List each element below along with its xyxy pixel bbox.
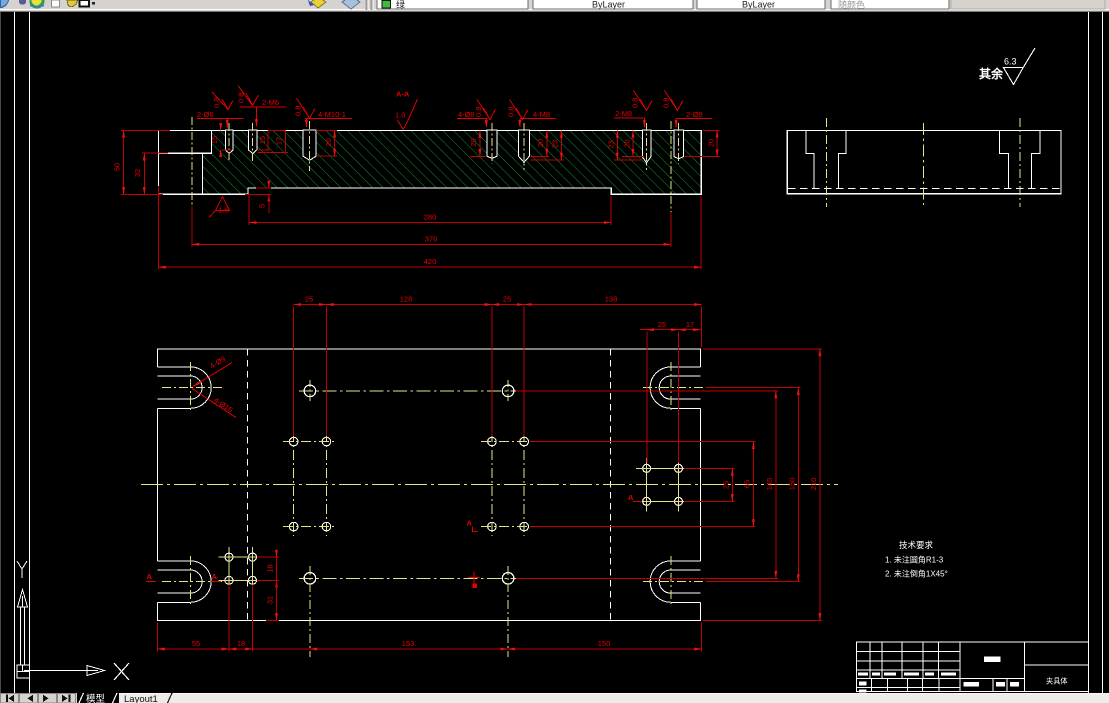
svg-text:0.8: 0.8 bbox=[474, 107, 483, 117]
top toolbar strip bbox=[0, 0, 1109, 12]
bolt hole H6 (2-M8) bbox=[642, 130, 651, 163]
big holes Ø9 row1/row4 bbox=[304, 385, 514, 584]
svg-text:2. 未注倒角1X45°: 2. 未注倒角1X45° bbox=[885, 569, 948, 579]
svg-text:技术要求: 技术要求 bbox=[899, 540, 934, 550]
cluster holes right-middle bbox=[643, 464, 683, 505]
svg-text:20: 20 bbox=[623, 139, 632, 147]
Layout1 tab bbox=[124, 693, 172, 703]
svg-text:31: 31 bbox=[266, 596, 275, 604]
layer combobox bbox=[377, 0, 528, 9]
toolbar icon: purple knob bbox=[19, 0, 26, 5]
svg-text:其余: 其余 bbox=[979, 66, 1004, 81]
model tab (dark, white text) bbox=[77, 693, 119, 703]
bottom dimension chain 55/18/153/150 bbox=[158, 585, 702, 652]
svg-text:128: 128 bbox=[400, 295, 413, 304]
svg-text:25: 25 bbox=[658, 320, 666, 329]
svg-text:17: 17 bbox=[686, 320, 694, 329]
cluster centerlines bottom-left (yellow) bbox=[219, 547, 264, 591]
roughness symbol 1.6 on bottom recess bbox=[209, 197, 230, 218]
toolbar right faint panel bbox=[951, 0, 1105, 9]
roughness symbol at H2 bbox=[238, 86, 259, 106]
svg-text:210: 210 bbox=[809, 478, 818, 491]
svg-text:ByLayer: ByLayer bbox=[592, 0, 625, 10]
svg-text:1. 未注圆角R1-3: 1. 未注圆角R1-3 bbox=[885, 555, 944, 565]
svg-text:15: 15 bbox=[258, 136, 267, 144]
svg-text:20: 20 bbox=[324, 138, 333, 146]
svg-text:A-A: A-A bbox=[396, 90, 410, 99]
UCS icon origin box bbox=[17, 665, 30, 678]
svg-text:0.8: 0.8 bbox=[631, 98, 640, 108]
bolt hole H3 (4-M10-1) bbox=[303, 130, 316, 160]
label 2-Ø6 with leader bbox=[197, 119, 244, 128]
roughness symbol at H3 bbox=[297, 98, 316, 118]
dimension 20 (H7 depth, right outside) bbox=[685, 130, 720, 156]
T-slot top-right bbox=[650, 367, 700, 408]
label 4-M10-1 with leader bbox=[305, 119, 352, 128]
toolbar icon: make-layer-current (yellow diamond with arrow) bbox=[311, 0, 326, 8]
svg-text:15: 15 bbox=[210, 136, 219, 144]
plotstyle combobox bbox=[831, 0, 949, 9]
small hole column centerlines (yellow) bbox=[294, 432, 525, 536]
section arrow A (right of bottom-left slot) bbox=[211, 572, 221, 582]
svg-text:65: 65 bbox=[743, 480, 752, 488]
UCS icon X axis arrow bbox=[24, 666, 105, 676]
dimension 20 (H3 depth) bbox=[316, 130, 337, 156]
cluster centerlines right-middle (yellow) bbox=[636, 458, 689, 512]
dimension 370 (between end hole axes) bbox=[192, 206, 671, 247]
toolbar icon: blue sheet fragment bbox=[0, 0, 9, 8]
svg-text:1.0: 1.0 bbox=[395, 111, 405, 120]
svg-text:420: 420 bbox=[424, 257, 437, 266]
cluster dimension 18 bbox=[257, 551, 279, 588]
svg-text:夹具体: 夹具体 bbox=[1046, 677, 1068, 686]
dimension 20 (H4 depth) bbox=[470, 130, 486, 156]
right side dimension 145 bbox=[516, 391, 778, 578]
svg-text:ByLayer: ByLayer bbox=[742, 0, 775, 10]
yellow centerlines of section bbox=[192, 117, 679, 212]
VCR tab navigation buttons bbox=[0, 693, 77, 703]
window left edge shade bbox=[0, 12, 2, 693]
svg-text:153: 153 bbox=[402, 639, 415, 648]
svg-text:0.8: 0.8 bbox=[237, 93, 246, 103]
svg-text:1.6: 1.6 bbox=[219, 206, 229, 215]
svg-text:0.8: 0.8 bbox=[294, 106, 303, 116]
T-slot bottom-right bbox=[650, 561, 700, 602]
roughness symbol at H5 bbox=[510, 100, 529, 120]
T-slot bottom-left bbox=[158, 561, 212, 602]
svg-text:17: 17 bbox=[275, 137, 284, 145]
UCS icon Y axis arrow bbox=[17, 561, 28, 665]
svg-text:18: 18 bbox=[237, 639, 245, 648]
end view centerlines bbox=[826, 118, 1020, 207]
left T-slot bbox=[806, 131, 846, 189]
label 4-Ø16 (slot outer radius) bbox=[192, 389, 236, 418]
cluster dimension 31 bbox=[266, 580, 279, 620]
svg-text:0.8: 0.8 bbox=[507, 107, 516, 117]
hidden recess edges (dashed) bbox=[247, 349, 610, 620]
plate outline bbox=[158, 349, 701, 621]
svg-text:0.8: 0.8 bbox=[212, 98, 221, 108]
bolt hole H7 (2-Ø8) bbox=[674, 130, 684, 159]
svg-text:20: 20 bbox=[469, 138, 478, 146]
svg-text:Layout1: Layout1 bbox=[124, 694, 158, 703]
end view outline bbox=[787, 131, 1061, 194]
svg-text:23: 23 bbox=[551, 140, 560, 148]
dimension 15 (H1 depth) bbox=[221, 124, 232, 156]
label 2-Ø8 with leader bbox=[676, 119, 712, 128]
svg-text:20: 20 bbox=[536, 139, 545, 147]
technical requirements text bbox=[885, 540, 948, 579]
section arrow A (right cluster) bbox=[628, 493, 642, 502]
right side dimension 65 bbox=[530, 442, 756, 527]
dimension 50 (left height) bbox=[121, 130, 170, 194]
svg-text:145: 145 bbox=[765, 478, 774, 491]
roughness symbol at H1 bbox=[212, 92, 233, 110]
dimension 15 (H2 thread depth) bbox=[258, 130, 270, 149]
right side dimension 25 (cluster) bbox=[684, 468, 735, 501]
bolt hole H5 (4-M8) bbox=[519, 130, 530, 162]
svg-text:A: A bbox=[628, 493, 634, 502]
svg-text:150: 150 bbox=[598, 639, 611, 648]
linetype combobox (ByLayer) bbox=[697, 0, 825, 9]
svg-text:370: 370 bbox=[425, 234, 438, 243]
toolbar icon: white page bbox=[52, 0, 60, 7]
roughness symbol at H6 bbox=[634, 91, 653, 111]
dimension 20 (H5 thread depth) bbox=[530, 130, 549, 156]
roughness symbol at H7 bbox=[665, 91, 684, 111]
toolbar icon: yellow tool bbox=[67, 0, 78, 7]
color combobox (ByLayer) bbox=[533, 0, 693, 9]
svg-text:2-M6: 2-M6 bbox=[262, 98, 279, 107]
UCS icon X label bbox=[114, 663, 129, 680]
surface finish note 其余 6.3 (top right) bbox=[979, 48, 1035, 85]
drawing frame border lines (right pair) bbox=[1089, 12, 1103, 693]
svg-text:25: 25 bbox=[503, 295, 511, 304]
top dimension chain 25/128/25/138 bbox=[294, 305, 702, 437]
svg-text:32: 32 bbox=[133, 169, 142, 177]
dimension 32 (step height) bbox=[142, 153, 168, 194]
svg-text:2-Ø6: 2-Ø6 bbox=[197, 110, 214, 119]
end view hidden bottom line (dashed) bbox=[788, 187, 1060, 189]
dimension 17 (H2 drill depth) bbox=[258, 130, 288, 152]
svg-text:20: 20 bbox=[707, 139, 716, 147]
sub chain 25/17 bbox=[640, 330, 700, 463]
svg-text:A: A bbox=[467, 519, 473, 528]
svg-text:4-Ø8: 4-Ø8 bbox=[458, 110, 475, 119]
svg-text:50: 50 bbox=[113, 163, 122, 171]
section marker cross (mid plate lower) bbox=[468, 572, 480, 588]
svg-text:6.3: 6.3 bbox=[1004, 57, 1017, 67]
hatched section body bbox=[203, 131, 701, 194]
section arrow A (mid plate upper) bbox=[467, 519, 479, 532]
dimension 420 (overall length) bbox=[159, 186, 702, 270]
title block tiny header texts bbox=[858, 657, 1019, 693]
svg-text:模型: 模型 bbox=[86, 693, 106, 703]
dimension 20 (H6 thread depth) bbox=[622, 130, 644, 156]
toolbar separator grips bbox=[367, 0, 372, 10]
dimension 280 (recess length) bbox=[249, 196, 611, 225]
bolt hole H1 (2-Ø6) bbox=[225, 130, 233, 153]
svg-text:25: 25 bbox=[722, 481, 731, 489]
right side dimension 210 bbox=[703, 349, 822, 621]
svg-text:18: 18 bbox=[266, 564, 275, 572]
T-slot top-left bbox=[158, 367, 212, 408]
toolbar icon: yellow-green sphere bbox=[30, 0, 45, 9]
roughness symbol 1.0 on top face bbox=[398, 99, 418, 129]
small holes row2/row3 bbox=[289, 437, 528, 531]
svg-text:A: A bbox=[212, 572, 218, 581]
label 4-Ø9 (slot inner radius) bbox=[193, 363, 232, 387]
toolbar icon: small dot bbox=[92, 2, 95, 5]
svg-text:5: 5 bbox=[258, 204, 267, 208]
svg-text:4-M10-1: 4-M10-1 bbox=[318, 110, 346, 119]
main horizontal centerline bbox=[141, 484, 838, 486]
dimension 5 (bottom recess) bbox=[245, 181, 271, 213]
svg-text:随颜色: 随颜色 bbox=[838, 0, 865, 10]
svg-text:2-M8: 2-M8 bbox=[615, 109, 632, 118]
label 2-M8 with leader bbox=[614, 118, 644, 128]
toolbar icon: layer previous (blue diamond) bbox=[342, 0, 360, 9]
hole row centerlines (yellow) bbox=[299, 380, 519, 657]
label 2-M6 with leader bbox=[239, 107, 286, 127]
label 4-Ø8 with leader bbox=[457, 119, 488, 128]
dimension 23 (H6 drill depth) bbox=[614, 130, 641, 160]
svg-text:A: A bbox=[147, 572, 153, 581]
section outline bbox=[159, 130, 702, 194]
small hole row cross lines (yellow) bbox=[283, 442, 535, 527]
svg-text:280: 280 bbox=[424, 213, 437, 222]
slot centerlines (yellow) bbox=[162, 362, 706, 607]
svg-text:0.8: 0.8 bbox=[662, 98, 671, 108]
drawing frame border lines (left pair) bbox=[15, 12, 30, 693]
svg-text:4-M8: 4-M8 bbox=[533, 110, 550, 119]
bolt hole H2 (2-M6) bbox=[248, 130, 257, 154]
svg-text:55: 55 bbox=[192, 639, 200, 648]
svg-text:绿: 绿 bbox=[396, 0, 405, 10]
right side dimension 150 bbox=[706, 388, 801, 582]
svg-text:23: 23 bbox=[607, 140, 616, 148]
svg-text:2-Ø8: 2-Ø8 bbox=[686, 110, 703, 119]
bottom status/tab bar bbox=[0, 693, 1109, 703]
svg-text:138: 138 bbox=[605, 295, 618, 304]
toolbar icon: black-bordered box bbox=[80, 0, 90, 7]
section arrow A (left of bottom-left slot) bbox=[146, 572, 156, 582]
roughness symbol at H4 bbox=[477, 100, 496, 120]
cluster holes bottom-left bbox=[225, 553, 257, 584]
bolt hole H4 (4-Ø8) bbox=[487, 130, 497, 158]
svg-text:25: 25 bbox=[305, 295, 313, 304]
svg-text:150: 150 bbox=[788, 478, 797, 491]
label 4-M8 with leader bbox=[520, 119, 556, 128]
dimension 23 (H5 drill depth) bbox=[530, 130, 564, 160]
right T-slot bbox=[1000, 131, 1040, 189]
